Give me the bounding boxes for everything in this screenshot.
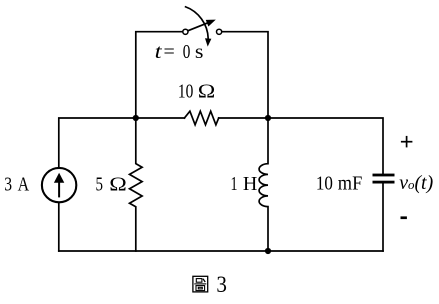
svg-text:10: 10: [178, 80, 193, 102]
label minus sign: [401, 216, 407, 219]
label figure character tu: [193, 276, 208, 292]
svg-text:3: 3: [4, 173, 12, 195]
svg-text:1: 1: [231, 173, 238, 195]
switch S1 right terminal: [217, 29, 222, 34]
label 10 ohm: [178, 80, 215, 102]
label plus sign: [401, 136, 413, 148]
svg-text:=: =: [164, 41, 175, 63]
node B dot: [265, 115, 271, 121]
svg-text:A: A: [18, 173, 30, 195]
wire: switch loop left (node A up and right to switch): [136, 32, 183, 118]
svg-text:s: s: [195, 40, 204, 63]
switch motion arc with arrowhead: [185, 7, 212, 47]
label 1 H: [231, 173, 258, 195]
svg-text:0: 0: [183, 40, 191, 63]
current source I1 circle: [42, 168, 76, 202]
capacitor C1 plates: [373, 174, 395, 184]
label 3 A: [4, 173, 29, 195]
svg-text:t: t: [155, 40, 163, 62]
label t = 0 s: [155, 40, 204, 63]
current source arrow: [54, 173, 64, 198]
node A dot: [133, 115, 139, 121]
wire: node B to top-right corner down to capacitor top plate: [268, 118, 383, 174]
node C dot: [265, 248, 271, 254]
label 5 ohm: [96, 172, 127, 195]
wire: top rail R1 right lead to node B: [219, 117, 268, 119]
svg-text:H: H: [243, 173, 257, 195]
switch blade with arrowhead: [188, 20, 216, 31]
inductor L1 1 H with leads, 4-loop coil: [259, 118, 268, 251]
svg-text:10: 10: [316, 172, 333, 195]
switch S1 left terminal: [183, 29, 188, 34]
wire: top rail node A to R1 left lead: [136, 117, 185, 119]
svg-text:5: 5: [96, 172, 104, 195]
wire: capacitor bottom plate to bottom rail: [382, 184, 384, 252]
resistor R2 5 ohm with leads: [130, 118, 143, 251]
svg-text:mF: mF: [338, 173, 363, 195]
wire: switch loop right (switch to node B): [222, 32, 268, 118]
wire: source bottom to bottom-left corner: [58, 203, 60, 251]
svg-text:Ω: Ω: [198, 80, 216, 102]
wire: top-left corner, source top to node A: [59, 118, 136, 167]
label 10 mF: [316, 172, 362, 195]
resistor R1 10 ohm zigzag: [184, 111, 218, 125]
svg-text:3: 3: [216, 271, 227, 297]
svg-text:Ω: Ω: [109, 173, 127, 195]
wire: bottom rail: [59, 250, 383, 252]
svg-text:vo(t): vo(t): [399, 172, 433, 194]
